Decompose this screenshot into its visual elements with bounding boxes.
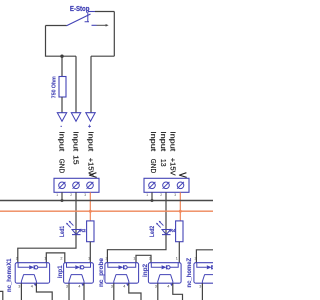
- junction +15V right: [179, 210, 182, 213]
- pin arrow Input GND: [57, 113, 66, 122]
- wire: left lead of E-Stop: [46, 25, 67, 27]
- wire: resistor to arrow: [61, 97, 63, 113]
- optocoupler OKD: [148, 257, 182, 300]
- svg-text:4: 4: [123, 285, 125, 289]
- wire: +15V drop: [90, 56, 92, 113]
- junction GND left: [61, 199, 64, 202]
- svg-text:1: 1: [146, 193, 148, 197]
- LED Led1: [72, 230, 81, 235]
- svg-text:Led2: Led2: [149, 225, 156, 237]
- svg-text:2: 2: [60, 257, 62, 261]
- wire: bottom right horizontal: [91, 55, 114, 57]
- +15V orange rail: [0, 210, 213, 212]
- svg-text:2: 2: [195, 257, 197, 261]
- svg-text:Input: Input: [149, 131, 156, 151]
- svg-text:nc_homeZ: nc_homeZ: [186, 258, 193, 288]
- switch S1 E-Stop blade: [67, 14, 91, 26]
- wire with arrow: [97, 24, 107, 26]
- svg-text:inp1: inp1: [57, 265, 64, 279]
- switch S1 actuator stem: [85, 12, 89, 22]
- wire: R4 to opto D pin1: [178, 242, 180, 263]
- wire: left loop: [46, 26, 77, 57]
- wire: Led2 cathode to opto C pin2: [107, 235, 166, 263]
- svg-text:Led1: Led1: [59, 225, 66, 237]
- switch S1 top pin: [88, 11, 95, 13]
- wire: top to right vertical: [95, 11, 114, 13]
- optocoupler OKC: [105, 257, 141, 300]
- svg-text:2: 2: [149, 257, 151, 261]
- wire: input 15 drop: [75, 56, 77, 113]
- svg-text:R2: R2: [80, 228, 87, 234]
- wire: Led1 cathode to opto A pin2: [18, 235, 76, 263]
- junction +15V left: [89, 210, 92, 213]
- svg-text:4: 4: [78, 285, 80, 289]
- svg-text:1: 1: [88, 257, 90, 261]
- wire: +15V stub right (orange): [179, 192, 181, 221]
- svg-text:2: 2: [106, 257, 108, 261]
- svg-text:4: 4: [31, 285, 33, 289]
- svg-text:4: 4: [167, 285, 169, 289]
- wire: right vertical from top: [113, 12, 115, 57]
- svg-text:+15V: +15V: [169, 158, 176, 176]
- GND rail: [0, 200, 213, 202]
- wire: GND stub left: [61, 192, 63, 200]
- wire: right edge to opto E pin2: [196, 250, 213, 263]
- switch S1 right contact stub: [92, 24, 97, 26]
- resistor R1 750 Ohm: [59, 77, 66, 98]
- svg-text:13: 13: [159, 159, 166, 167]
- wire: GND stub right: [151, 192, 153, 200]
- svg-text:nc_probe: nc_probe: [98, 257, 105, 287]
- svg-text:+: +: [88, 124, 91, 130]
- svg-text:1: 1: [176, 257, 178, 261]
- pin arrow Input 15: [71, 113, 80, 122]
- svg-text:Input: Input: [58, 131, 65, 151]
- svg-text:1: 1: [44, 257, 46, 261]
- pin arrow Input +15V: [86, 113, 95, 122]
- svg-text:GND: GND: [58, 159, 65, 174]
- svg-text:Input: Input: [86, 131, 93, 151]
- wire: to resistor R1: [61, 56, 63, 76]
- wire: opto A pin1 to opto B pin2: [46, 253, 65, 263]
- svg-text:3: 3: [84, 193, 86, 197]
- wire: +15V stub left (orange): [89, 192, 91, 221]
- svg-text:3: 3: [174, 193, 176, 197]
- wire: R2 to opto B pin1: [89, 242, 91, 263]
- terminal block X1: [54, 178, 99, 192]
- svg-text:GND: GND: [149, 159, 156, 174]
- svg-text:3: 3: [155, 285, 157, 289]
- svg-text:Input: Input: [159, 131, 166, 151]
- wire: signal stub left: [75, 192, 77, 234]
- svg-text:Input: Input: [71, 131, 78, 151]
- junction GND right: [151, 199, 154, 202]
- wire: opto C pin1 to opto D pin2: [136, 255, 151, 262]
- far-left bottom wire: [0, 291, 3, 300]
- svg-text:2: 2: [70, 193, 72, 197]
- wire: signal stub right: [165, 192, 167, 234]
- svg-text:1: 1: [133, 257, 135, 261]
- svg-text:1: 1: [56, 193, 58, 197]
- terminal block X2: [144, 178, 189, 192]
- svg-text:3: 3: [66, 285, 68, 289]
- svg-text:E-Stop: E-Stop: [70, 6, 90, 13]
- svg-text:+15V: +15V: [86, 158, 93, 176]
- optocoupler OKB: [60, 257, 93, 300]
- LED Led2: [162, 230, 171, 235]
- svg-text:3: 3: [111, 285, 113, 289]
- svg-text:750 Ohm: 750 Ohm: [52, 76, 58, 98]
- svg-text:3: 3: [18, 285, 20, 289]
- optocoupler OKE: [194, 257, 226, 300]
- svg-text:15: 15: [71, 155, 78, 165]
- junction node: [60, 55, 63, 58]
- svg-text:Input: Input: [169, 131, 176, 151]
- svg-text:3: 3: [199, 285, 201, 289]
- svg-text:2: 2: [160, 193, 162, 197]
- svg-text:2: 2: [16, 257, 18, 261]
- optocoupler OKA: [15, 257, 52, 300]
- svg-text:nc_homeX1: nc_homeX1: [6, 258, 13, 292]
